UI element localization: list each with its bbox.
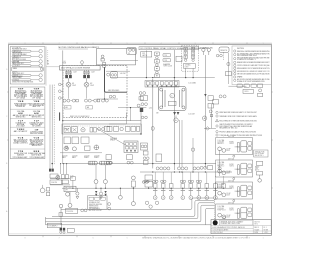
starter group box 3 (81, 137, 89, 143)
legend row 1 ref circle (39, 50, 42, 53)
svg-text:CPT: CPT (65, 190, 68, 192)
cooler engine label box (60, 66, 101, 70)
unit 2 motor circle (218, 169, 222, 173)
unit 3 starter box (241, 185, 247, 196)
svg-text:DIST: DIST (185, 67, 189, 69)
wires contactor to motor (69, 78, 87, 82)
svg-text:460V: 460V (226, 194, 230, 196)
device circle pair above d155 (153, 180, 155, 182)
aux contact group 3 (102, 99, 105, 102)
dashed drop from PB1 (223, 52, 225, 60)
svg-text:M2: M2 (90, 83, 92, 85)
contact pair lower left (81, 209, 84, 212)
TB1 fuse dots (185, 48, 194, 57)
small boxes row RB (237, 84, 242, 88)
legend spare ref circle (40, 68, 43, 71)
junction dots on bus (60, 163, 61, 164)
svg-text:V C B: V C B (34, 137, 40, 139)
triangle note marker (216, 119, 219, 122)
contactor K1 (pair of poles) (65, 75, 68, 78)
notes continuation items (216, 111, 218, 113)
svg-text:GROUND BUS FULL LENGTH OF LINE: GROUND BUS FULL LENGTH OF LINEUP 1/4 X 2… (237, 71, 270, 73)
wires to aux contacts (69, 87, 87, 99)
TB1 fuse column 1 (184, 47, 187, 61)
svg-text:PUMP NO 1: PUMP NO 1 (217, 187, 225, 189)
legend row 2 wire (31, 55, 39, 57)
legend row 1 bus pill (12, 50, 31, 52)
svg-text:NOTES: NOTES (237, 48, 245, 50)
mcc bottom line (62, 120, 141, 122)
TB1 label box (184, 63, 196, 68)
legend row 4 bus pill (12, 65, 31, 67)
sheet zone strip top (8, 42, 272, 44)
svg-text:CONT ON SH 2: CONT ON SH 2 (212, 232, 223, 234)
tap symbol T3 (59, 97, 62, 100)
heavy bus stub left (59, 112, 61, 120)
legend row 6 ref circle (39, 78, 42, 81)
drop x130.5 (130, 108, 132, 121)
note 3 (234, 57, 236, 59)
relay stack dots (156, 53, 157, 76)
note 9 (234, 76, 236, 78)
small side box (104, 126, 109, 131)
svg-text:REQUIRED BY NEC 110: REQUIRED BY NEC 110 (219, 128, 237, 130)
svg-text:Y J F: Y J F (34, 120, 40, 122)
device circle pair d198 (196, 180, 198, 182)
balloon A on v205 (202, 116, 206, 120)
svg-text:SMC XX COOLER MCC: SMC XX COOLER MCC (70, 116, 90, 118)
horizontal bus y163.5 (62, 163, 216, 165)
svg-text:NONE: NONE (264, 229, 268, 231)
contact row CR (156, 167, 159, 170)
unit panel 4 frame (216, 204, 253, 221)
rounded box PB1 (219, 47, 229, 52)
legend row 3 ref circle (39, 60, 42, 63)
bus b4 (46, 205, 215, 222)
svg-text:SIZE 2: SIZE 2 (229, 188, 234, 190)
inline square on v212 (210, 114, 212, 116)
unit 3 motor circle (218, 191, 222, 195)
tap wire y71.2 (106, 70, 130, 72)
svg-text:SEE NOTE 6: SEE NOTE 6 (32, 145, 42, 147)
svg-text:MOTOR CONTROLLER NACELLE LINEU: MOTOR CONTROLLER NACELLE LINEUP 1 (59, 46, 101, 49)
long wire across y77.5 (110, 77, 215, 79)
terminal stack TB0 (103, 62, 106, 64)
LL aux rects (46, 188, 49, 191)
junction dots (62, 77, 206, 173)
svg-text:SIZE 2: SIZE 2 (229, 210, 234, 212)
note 2 (234, 53, 236, 55)
bus b2 (52, 200, 214, 216)
unit 2 side chain (256, 161, 262, 165)
svg-text:1 OF 2: 1 OF 2 (264, 232, 269, 234)
bus left terminator box (59, 213, 63, 217)
unit 1 motor circle (218, 147, 222, 151)
bus far-left vertical (45, 217, 47, 225)
bus b1 (61, 198, 214, 209)
overload box OL (243, 89, 253, 93)
svg-text:460V: 460V (226, 172, 230, 174)
svg-text:REMOVE BEFORE: REMOVE BEFORE (89, 204, 102, 206)
svg-text:1-50: 1-50 (65, 146, 68, 148)
wire vertical v154 (152, 79, 154, 168)
parts panel row dividers (10, 100, 45, 149)
interconnect label box (47, 223, 62, 227)
svg-text:460V: 460V (226, 150, 230, 152)
device circle pair above d191 (188, 180, 190, 182)
cluster P circles (200, 166, 203, 169)
parts panel frame (10, 87, 45, 159)
legend row 6 wire (31, 79, 39, 81)
svg-text:PUMP 1: PUMP 1 (84, 157, 89, 159)
drop wires from bus (61, 164, 67, 174)
junction dark mark (213, 221, 215, 223)
wire v193 with node (192, 138, 194, 172)
CT cluster (137, 104, 140, 107)
relay stack RS1 (155, 52, 160, 78)
unit panel 1 frame (216, 138, 253, 155)
svg-text:TD2: TD2 (164, 60, 167, 62)
feeder box lower left (62, 124, 141, 134)
border tick marks (7, 42, 273, 237)
svg-text:Y M B: Y M B (34, 101, 40, 103)
svg-text:Y M B: Y M B (18, 101, 24, 103)
interconnect circles (60, 231, 62, 233)
wire stubs from label box (67, 70, 105, 99)
fuse dev row (repeat small) (142, 181, 225, 189)
starter aux box (85, 146, 90, 150)
note box NB (87, 196, 107, 209)
NB cell row (89, 197, 94, 200)
interconnect aux box (67, 228, 74, 232)
unit 3 vertical bar (238, 187, 240, 197)
VC1 corner terminals (160, 88, 163, 91)
aux box AX1 (140, 143, 147, 150)
svg-text:SCHEDULE ON SHEET 2: SCHEDULE ON SHEET 2 (237, 59, 256, 61)
left bus device circle (59, 204, 63, 208)
svg-text:1 W: 1 W (35, 129, 39, 131)
svg-text:ENERGIZING: ENERGIZING (89, 206, 99, 208)
mid column stack A (143, 151, 148, 155)
wire vertical v205 (204, 55, 206, 168)
tap contact circle (107, 73, 110, 76)
VC1 pole bar right (179, 90, 181, 107)
meter circle lower left (68, 203, 72, 207)
LL meter circle 2 (66, 192, 70, 196)
LL label box (50, 180, 62, 184)
svg-text:36C774: 36C774 (254, 221, 259, 223)
svg-text:TD1: TD1 (164, 55, 167, 57)
unit 1 side note box (254, 150, 268, 157)
relay cluster RC2 (141, 95, 148, 101)
svg-text:PUMP 2: PUMP 2 (94, 157, 99, 159)
legend spare bus box (11, 67, 43, 71)
wire y99 (97, 98, 119, 100)
contactor poles LL (49, 169, 51, 172)
timer boxes (163, 53, 171, 56)
tap contactor box (111, 72, 118, 78)
svg-text:Y M F: Y M F (34, 89, 40, 91)
starter labels (62, 155, 100, 159)
svg-text:Y F B: Y F B (18, 151, 24, 153)
diamond node on y128 (204, 127, 216, 129)
unit 2 bottom stub (233, 178, 235, 180)
svg-text:SECTION 1-50 CM: SECTION 1-50 CM (89, 210, 103, 212)
tap symbol T1 (59, 83, 62, 86)
legend row 3 bus pill (12, 60, 31, 62)
svg-text:FL 1: FL 1 (264, 227, 267, 229)
note 8 (234, 73, 236, 75)
bus left vertical (60, 208, 62, 225)
connector J1 (202, 48, 205, 51)
svg-text:15HP: 15HP (72, 85, 76, 87)
device pt77 below bus (76, 188, 78, 192)
starter group box 2 (72, 137, 78, 144)
legend row 1 wire (31, 50, 39, 52)
horizontal bus y172 (140, 171, 232, 173)
small box K5 (127, 155, 133, 160)
notes box frame (232, 46, 271, 85)
svg-text:460V: 460V (226, 216, 230, 218)
title block dividers (211, 220, 271, 234)
left rail wires (50, 85, 52, 169)
legend row 2 ref circle (39, 55, 42, 58)
unit panel 2 frame (216, 160, 253, 177)
zone numbers bottom (25, 237, 264, 239)
contact pair on v154 (141, 116, 144, 119)
svg-text:1-50: 1-50 (70, 176, 73, 178)
svg-text:15HP: 15HP (90, 85, 94, 87)
svg-text:PUMP NO 2: PUMP NO 2 (217, 209, 225, 211)
contactor K2 (pair of poles) (83, 75, 86, 78)
wire vertical v174 (173, 50, 175, 170)
terminal strip row (145, 81, 179, 87)
tap symbol T2 (59, 90, 62, 93)
note 4 (234, 61, 236, 63)
note 1 (234, 50, 236, 52)
legend panel outer rail (45, 46, 47, 85)
starter group box 1 (64, 137, 70, 144)
feeder box contacts (98, 128, 101, 131)
unit 2 right boxes (248, 164, 252, 168)
unit panel 3 frame (216, 182, 253, 199)
starter rail (60, 152, 102, 154)
svg-text:TO LINEUP 2: TO LINEUP 2 (48, 225, 57, 227)
svg-text:B1 CONTROL PANEL 120VAC CONTRO: B1 CONTROL PANEL 120VAC CONTROL SCHEME C… (141, 47, 208, 50)
rail stub dashes (47, 50, 49, 64)
terminal label AB 2 (86, 106, 93, 109)
svg-text:600V MINIMUM PER SPEC: 600V MINIMUM PER SPEC (237, 55, 258, 57)
relay board RB1 (124, 141, 138, 152)
sheet border (9, 44, 272, 235)
unit 3 right boxes (248, 186, 252, 190)
legend row 6 bus pill (12, 79, 31, 81)
device circle pair d145 (144, 180, 146, 182)
legend row 3 wire (31, 60, 39, 62)
fuse rects cluster (61, 175, 64, 179)
stub fuses (66, 71, 89, 73)
device small box d72 (71, 176, 76, 180)
wire vertical v146 (145, 50, 147, 77)
svg-text:120V PNL: 120V PNL (66, 211, 73, 213)
v205 side boxes (208, 96, 213, 101)
wire y86 horizontal (228, 85, 246, 87)
starter X circle (64, 146, 68, 150)
svg-text:CR1: CR1 (142, 53, 145, 55)
control panel title bar (139, 47, 199, 50)
motor M2 (84, 82, 89, 87)
unit 4 vertical bar (238, 209, 240, 219)
VC1 bottom arrows (173, 112, 176, 115)
svg-text:480V 3PH A+B COOLER ENGINE: 480V 3PH A+B COOLER ENGINE (61, 67, 91, 70)
unit 4 starter box (241, 207, 247, 218)
bus y188 (62, 187, 232, 189)
svg-text:480V 3PH FEED: 480V 3PH FEED (108, 90, 120, 92)
svg-text:Y M F: Y M F (18, 89, 24, 91)
xfmr box lower left (64, 186, 76, 191)
fuse block FS1 (127, 48, 136, 55)
svg-text:1-50 CM: 1-50 CM (120, 73, 127, 75)
zone numbers top (25, 43, 264, 45)
interconnect dark poles (60, 228, 62, 231)
inline device on v154 (151, 126, 154, 130)
wire v220 with node (219, 150, 221, 176)
svg-text:FS: FS (128, 53, 130, 55)
border tick balloon bottom (223, 216, 226, 219)
svg-text:1-50: 1-50 (149, 108, 152, 110)
inner box edge h124 (109, 123, 126, 125)
svg-text:SEE NOTE 4: SEE NOTE 4 (32, 117, 42, 119)
relay block R1 (141, 51, 152, 57)
small box mid k7 (106, 155, 111, 160)
LL meter circle (40, 188, 45, 193)
terminal label AB 1 (65, 106, 72, 109)
starter circle 2 (72, 147, 76, 151)
arrow chevrons under lamp d96 (95, 191, 107, 196)
unit 1 starter box (241, 141, 247, 152)
svg-text:HTR BUS: HTR BUS (13, 79, 19, 81)
node balloon A (80, 60, 84, 64)
svg-text:FIELD WIRING BY OTHERS SEE INT: FIELD WIRING BY OTHERS SEE INTERCONNECTI… (219, 120, 257, 122)
legend row 4 ref circle (39, 64, 42, 67)
LL fuse box (50, 174, 58, 178)
device circle d105 (104, 184, 106, 188)
note 7 (234, 70, 236, 72)
svg-text:W/ COVER: W/ COVER (32, 125, 41, 127)
inner box edge v126 (125, 113, 127, 124)
vertical wire v212 (211, 104, 213, 128)
note 10 (234, 79, 236, 81)
legend row 5 wire (31, 74, 39, 76)
k7 circles (106, 161, 109, 164)
heavy feed bus vertical (105, 67, 128, 92)
starter cross circle (94, 145, 99, 150)
v205 arrow (204, 94, 206, 97)
left rail dashed wire (53, 85, 55, 165)
device cluster d148 (145, 175, 152, 180)
legend row 5 bus pill (12, 74, 31, 76)
wire pair v179 (179, 120, 181, 167)
title block frame (211, 220, 271, 234)
feeder box aux marks (90, 127, 93, 132)
svg-text:REMOTE: REMOTE (220, 50, 227, 52)
diagonal jumper wire (97, 129, 127, 146)
svg-text:REV 3: REV 3 (254, 227, 259, 229)
unit 2 starter box (241, 163, 247, 174)
contact pair CP1 (216, 54, 219, 57)
cooler engine enclosure (dashed) (63, 66, 127, 118)
svg-text:Y M B 2: Y M B 2 (17, 129, 25, 131)
device circle d96 (95, 184, 97, 188)
svg-text:SIZE 2: SIZE 2 (229, 143, 234, 145)
feeder box breaker 2 (71, 127, 77, 133)
VC1 pole bar left (162, 90, 164, 107)
wire y107.5 (118, 107, 146, 109)
terminal board TB1 (dashed) (181, 46, 198, 71)
mid column stack B (143, 161, 148, 165)
label box lower left (65, 209, 77, 214)
right chain boxes (258, 84, 263, 87)
CT bracket 2 (99, 161, 111, 165)
contact pair on y99 (109, 95, 112, 98)
unit 4 motor circle (218, 213, 222, 217)
lamp circle d120 (119, 188, 121, 195)
feeder box breaker 1 (64, 127, 70, 133)
breaker cluster CB1 (101, 55, 104, 58)
legend row 5 ref circle (39, 74, 42, 77)
wire v228 with device (227, 53, 229, 84)
unit 3 bottom stub (233, 200, 235, 202)
A-balloons under device row (153, 188, 217, 199)
device stack d133 (132, 176, 136, 180)
box K6 (156, 154, 162, 162)
TB1 fuse column 2 (191, 47, 194, 61)
bus 188 junction dots (72, 188, 224, 189)
svg-text:SIZE 2: SIZE 2 (229, 166, 234, 168)
svg-text:GENERATED DRAWING E-36C774-1 E: GENERATED DRAWING E-36C774-1 ELEMENTARY … (142, 237, 250, 240)
svg-text:SEE NOTE 5: SEE NOTE 5 (255, 155, 264, 157)
svg-text:SH 1: SH 1 (254, 224, 258, 226)
dashed wire right of buses (214, 199, 216, 223)
device pt101 below bus (100, 188, 102, 192)
svg-text:SEE NOTE 4: SEE NOTE 4 (16, 117, 26, 119)
TB1 drops (185, 68, 187, 77)
logo name box (219, 220, 252, 225)
svg-text:V C B: V C B (18, 137, 24, 139)
unit 1 right boxes (248, 142, 252, 146)
svg-text:1-50 CM: 1-50 CM (51, 182, 58, 184)
svg-text:N N B: N N B (34, 151, 40, 153)
company logo (213, 220, 218, 225)
legend row 2 bus pill (12, 55, 31, 57)
disconnect X circle (56, 175, 60, 179)
bus b5 (46, 208, 215, 224)
svg-text:M1: M1 (72, 83, 74, 85)
feeder box meter (81, 128, 85, 132)
wire down from xfmr (69, 192, 71, 204)
note 6 (234, 67, 236, 69)
svg-text:B: B (6, 163, 7, 165)
svg-text:TDPU 1-10S: TDPU 1-10S (163, 66, 172, 68)
wire legend to schematic (46, 66, 60, 68)
rail junction dot (52, 163, 53, 164)
bus b3 (46, 203, 215, 219)
device tag dashes (153, 189, 218, 192)
svg-text:1-50 CM: 1-50 CM (188, 114, 195, 116)
unit 2 vertical bar (238, 165, 240, 175)
left wire v63 lower (62, 121, 64, 164)
legend row 4 wire (31, 65, 39, 67)
